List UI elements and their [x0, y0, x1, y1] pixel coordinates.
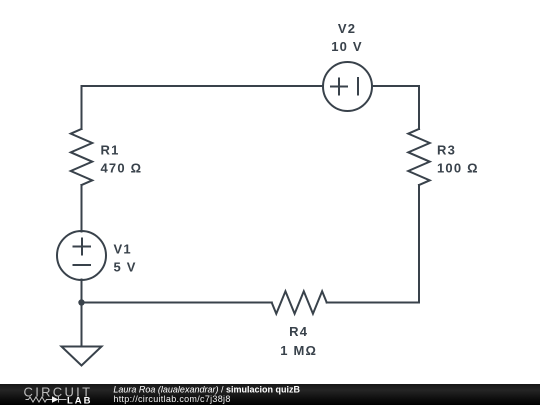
svg-text:100 Ω: 100 Ω — [437, 161, 479, 176]
svg-text:R3: R3 — [437, 142, 456, 157]
svg-text:1 MΩ: 1 MΩ — [280, 343, 317, 358]
svg-text:V2: V2 — [338, 21, 356, 36]
svg-text:470 Ω: 470 Ω — [101, 161, 143, 176]
svg-text:5 V: 5 V — [114, 259, 137, 274]
svg-text:R1: R1 — [101, 142, 120, 157]
svg-text:R4: R4 — [289, 324, 308, 339]
svg-text:LAB: LAB — [67, 396, 93, 405]
svg-text:http://circuitlab.com/c7j38j8: http://circuitlab.com/c7j38j8 — [113, 394, 230, 404]
svg-text:Laura Roa (laualexandrar) / si: Laura Roa (laualexandrar) / simulacion q… — [113, 384, 300, 394]
svg-text:V1: V1 — [114, 241, 132, 256]
svg-text:10 V: 10 V — [331, 39, 363, 54]
